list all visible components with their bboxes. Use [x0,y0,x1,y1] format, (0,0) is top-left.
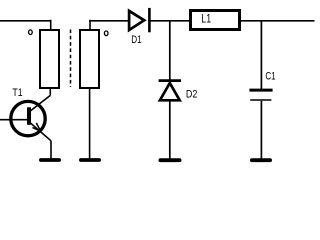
wire C1 bottom plate to ground [260,101,262,159]
inductor L1 box [191,11,240,30]
wire base lead [0,119,27,121]
wire L1 to output [240,20,315,22]
svg-text:L1: L1 [201,12,211,26]
svg-text:T1: T1 [12,87,22,99]
wire secondary top to D1 anode [89,20,128,22]
transistor T1 emitter arrow barb lower [32,128,40,132]
transformer primary winding [40,30,59,88]
wire collector diagonal [30,95,51,111]
wire secondary winding bottom to ground [89,88,91,159]
wire primary top drop to winding [50,20,52,30]
transistor T1 emitter arrow barb upper [36,123,40,131]
svg-text:D2: D2 [186,89,198,101]
svg-text:D1: D1 [131,34,141,46]
diode D1 cathode bar [148,8,151,32]
wire primary winding bottom to collector junction [49,88,51,95]
wire down to C1 top plate [260,20,262,89]
transformer phase dot left (o) [29,30,33,35]
diode D2 triangle [160,83,180,100]
transistor T1 base bar [27,107,31,125]
ground symbol secondary [81,158,99,162]
capacitor C1 top plate [249,89,272,92]
wire D1 cathode to L1 [151,20,191,22]
ground symbol D2 [160,158,179,162]
capacitor C1 bottom plate [250,99,271,101]
ground symbol emitter [41,158,59,162]
transistor T1 emitter diagonal [30,122,52,141]
svg-text:C1: C1 [265,71,275,83]
wire primary top horizontal [0,20,51,22]
diode D1 triangle [129,11,144,30]
transformer secondary winding [80,30,99,88]
wire down to D2 cathode [169,20,171,80]
diode D2 cathode bar [159,79,181,82]
transistor T1 circle [11,101,45,135]
ground symbol C1 [252,158,270,162]
wire emitter to ground [50,141,52,159]
wire D2 anode to ground [169,101,171,159]
wire secondary top riser [89,20,91,30]
transformer phase dot right (o) [104,31,108,36]
transformer core dashed line [70,30,72,88]
